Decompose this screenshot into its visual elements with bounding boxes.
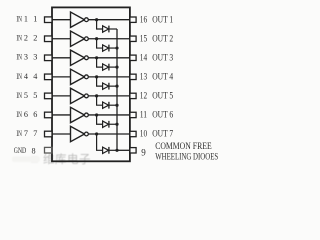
svg-text:9: 9	[141, 148, 146, 158]
pin 10 terminal square (output 7)	[130, 131, 136, 136]
svg-text:4: 4	[24, 72, 28, 81]
pin 15 terminal square (output 2)	[130, 36, 136, 41]
junction node on common bus row 7	[115, 149, 118, 152]
svg-text:COMMON FREE: COMMON FREE	[155, 141, 212, 151]
pin 4 terminal square (input 4)	[45, 74, 53, 80]
wire output 7 down to diode D7	[97, 134, 103, 150]
svg-text:IN: IN	[16, 91, 22, 100]
wire output 6 down to diode D6	[97, 115, 103, 124]
junction node on output 2	[95, 37, 98, 40]
wire output 6 to pin 11	[88, 114, 130, 116]
free-wheeling diode D5	[103, 102, 109, 109]
wire input 4 to buffer	[52, 76, 71, 78]
net label IN 1	[16, 15, 28, 24]
junction node on common bus row 6	[115, 123, 118, 126]
svg-text:WHEELING DIOOES: WHEELING DIOOES	[155, 151, 218, 161]
svg-text:OUT 5: OUT 5	[152, 91, 173, 101]
common cathode bus wire	[116, 29, 118, 150]
junction node on output 7	[95, 132, 98, 135]
junction node on output 1	[95, 18, 98, 21]
pin 3 terminal square (input 3)	[45, 55, 53, 61]
svg-text:16: 16	[140, 14, 148, 24]
net label IN 3	[16, 53, 28, 62]
wire output 5 down to diode D5	[97, 96, 103, 105]
svg-text:11: 11	[140, 110, 147, 120]
svg-text:2: 2	[24, 34, 28, 43]
pin 8 terminal square (GND)	[45, 147, 53, 153]
pin 14 terminal square (output 3)	[130, 55, 136, 60]
svg-text:GND: GND	[14, 146, 27, 155]
wire output 7 to pin 10	[88, 133, 130, 135]
svg-text:OUT 3: OUT 3	[152, 53, 173, 63]
svg-text:IN: IN	[16, 110, 22, 119]
svg-text:3: 3	[33, 53, 37, 62]
wire diode D2 cathode to common bus	[109, 47, 117, 49]
wire output 2 to pin 15	[88, 38, 130, 40]
svg-text:15: 15	[140, 33, 148, 43]
free-wheeling diode D1	[103, 26, 109, 33]
wire input 2 to buffer	[52, 38, 71, 40]
free-wheeling diode D7	[103, 147, 109, 154]
net label IN 2	[16, 34, 28, 43]
svg-text:维库电子: 维库电子	[43, 152, 91, 166]
wire common bus to pin 9	[117, 149, 130, 151]
inverting darlington driver A7	[71, 126, 89, 141]
svg-text:IN: IN	[16, 34, 22, 43]
wire output 4 to pin 13	[88, 76, 130, 78]
net label IN 5	[16, 91, 28, 100]
svg-text:IN: IN	[16, 15, 22, 24]
wire output 1 to pin 16	[88, 19, 130, 21]
wire output 3 down to diode D3	[97, 58, 103, 67]
inverting darlington driver A4	[71, 69, 89, 84]
svg-text:10: 10	[140, 129, 148, 139]
pin 12 terminal square (output 5)	[130, 93, 136, 98]
net label IN 7	[16, 129, 28, 138]
svg-text:14: 14	[140, 53, 148, 63]
wire output 5 to pin 12	[88, 95, 130, 97]
junction node on output 5	[95, 94, 98, 97]
inverting darlington driver A5	[71, 88, 89, 103]
svg-text:OUT 7: OUT 7	[152, 129, 173, 139]
svg-text:1: 1	[33, 15, 37, 24]
wire diode D1 cathode to common bus	[109, 28, 117, 30]
wire diode D4 cathode to common bus	[109, 85, 117, 87]
svg-text:6: 6	[33, 110, 37, 119]
pin 7 terminal square (input 7)	[45, 131, 53, 137]
junction node on output 3	[95, 56, 98, 59]
svg-text:OUT 4: OUT 4	[152, 72, 173, 82]
wire output 2 down to diode D2	[97, 39, 103, 48]
junction node on common bus row 5	[115, 104, 118, 107]
wire diode D7 cathode to common bus	[109, 149, 117, 151]
wire diode D3 cathode to common bus	[109, 66, 117, 68]
pin 9 terminal square (common diodes)	[130, 148, 136, 153]
svg-text:7: 7	[24, 129, 28, 138]
svg-text:12: 12	[140, 91, 147, 101]
inverting darlington driver A6	[71, 107, 89, 122]
svg-text:OUT 2: OUT 2	[152, 33, 173, 43]
net label COMMON FREE WHEELING DIOOES	[155, 141, 218, 161]
svg-text:1: 1	[24, 15, 28, 24]
junction node on common bus row 4	[115, 85, 118, 88]
wire output 1 down to diode D1	[97, 20, 103, 29]
svg-text:OUT 6: OUT 6	[152, 110, 173, 120]
pin 5 terminal square (input 5)	[45, 93, 53, 99]
svg-text:13: 13	[140, 72, 148, 82]
net label IN 4	[16, 72, 28, 81]
free-wheeling diode D2	[103, 45, 109, 52]
wire output 4 down to diode D4	[97, 77, 103, 86]
svg-text:5: 5	[24, 91, 28, 100]
wire input 5 to buffer	[52, 95, 71, 97]
net label IN 6	[16, 110, 28, 119]
inverting darlington driver A2	[71, 31, 89, 46]
pin 11 terminal square (output 6)	[130, 112, 136, 117]
junction node on common bus row 3	[115, 66, 118, 69]
svg-text:8: 8	[31, 146, 35, 155]
junction node on output 4	[95, 75, 98, 78]
wire input 7 to buffer	[52, 133, 71, 135]
wire input 1 to buffer	[52, 19, 71, 21]
free-wheeling diode D6	[103, 121, 109, 128]
svg-text:4: 4	[33, 72, 37, 81]
svg-text:2: 2	[33, 34, 37, 43]
svg-text:6: 6	[24, 110, 28, 119]
wire diode D6 cathode to common bus	[109, 123, 117, 125]
pin 13 terminal square (output 4)	[130, 74, 136, 79]
wire input 3 to buffer	[52, 57, 71, 59]
svg-text:IN: IN	[16, 53, 22, 62]
wire diode D5 cathode to common bus	[109, 104, 117, 106]
IC package outline U1	[52, 7, 130, 161]
pin 2 terminal square (input 2)	[45, 36, 53, 42]
svg-text:7: 7	[33, 129, 37, 138]
svg-text:5: 5	[33, 91, 37, 100]
wire output 3 to pin 14	[88, 57, 130, 59]
junction node on output 6	[95, 113, 98, 116]
junction node on common bus row 2	[115, 46, 118, 49]
pin 6 terminal square (input 6)	[45, 112, 53, 118]
svg-text:IN: IN	[16, 72, 22, 81]
pin 16 terminal square (output 1)	[130, 17, 136, 22]
inverting darlington driver A1	[71, 12, 89, 27]
svg-text:3: 3	[24, 53, 28, 62]
free-wheeling diode D3	[103, 64, 109, 71]
svg-text:IN: IN	[16, 129, 22, 138]
pin 1 terminal square (input 1)	[45, 17, 53, 23]
inverting darlington driver A3	[71, 50, 89, 65]
wire input 6 to buffer	[52, 114, 71, 116]
svg-text:OUT 1: OUT 1	[152, 14, 173, 24]
free-wheeling diode D4	[103, 83, 109, 90]
